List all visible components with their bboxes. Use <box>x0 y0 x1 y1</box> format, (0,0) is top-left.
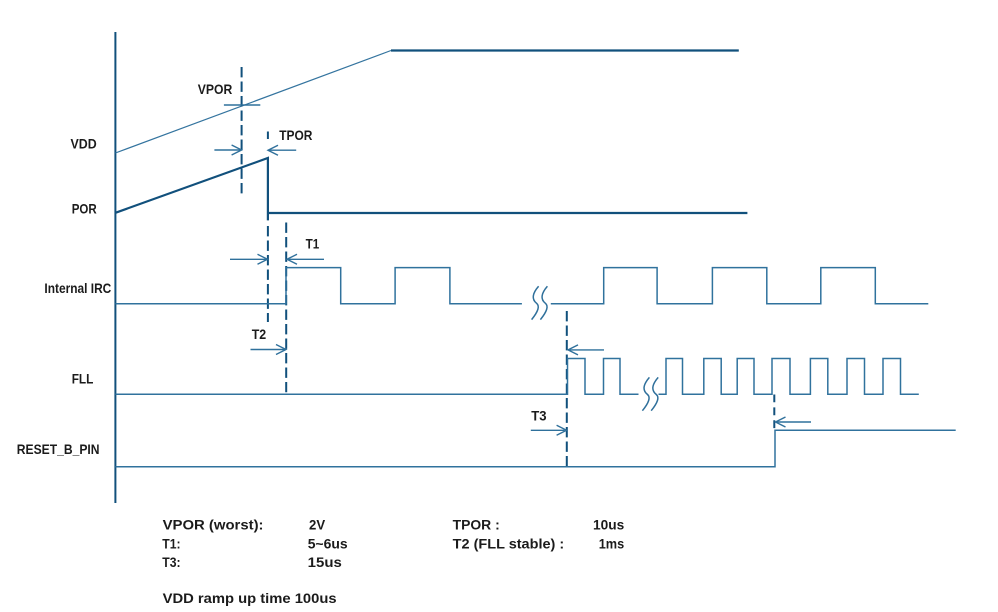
arrow T1 right <box>287 254 324 264</box>
wire FLL clock left <box>115 359 638 395</box>
svg-text:RESET_B_PIN: RESET_B_PIN <box>17 442 100 457</box>
wire FLL clock right <box>659 359 919 395</box>
svg-text:POR: POR <box>72 201 97 216</box>
node VPOR dashed line <box>241 67 243 194</box>
node T1 dashed line <box>285 223 287 393</box>
node IRC break squiggle <box>532 286 548 319</box>
svg-text:T3: T3 <box>531 408 547 423</box>
arrow VPOR <box>214 145 241 155</box>
svg-text:15us: 15us <box>308 555 342 571</box>
wire Internal IRC clock right <box>551 268 929 304</box>
svg-text:TPOR :: TPOR : <box>453 517 500 533</box>
wire VDD ramp <box>115 51 391 154</box>
node T3 dashed line <box>566 311 568 466</box>
arrow T3 <box>531 425 567 435</box>
wire POR flat <box>268 212 748 214</box>
wire RESET_B_PIN signal <box>115 430 955 466</box>
svg-text:T3:: T3: <box>162 555 180 571</box>
node FLL break squiggle <box>642 377 658 410</box>
arrow TPOR <box>268 145 296 155</box>
svg-text:2V: 2V <box>309 517 326 533</box>
arrow FLL stable <box>568 345 604 355</box>
svg-text:VPOR: VPOR <box>198 82 233 97</box>
svg-text:T2 (FLL stable) :: T2 (FLL stable) : <box>453 536 565 552</box>
svg-text:TPOR: TPOR <box>279 128 312 143</box>
node RESET dashed line <box>773 395 775 429</box>
node TPOR dashed line lower <box>267 226 269 322</box>
arrow T1 left <box>230 254 268 264</box>
svg-text:1ms: 1ms <box>599 536 625 552</box>
svg-text:Internal IRC: Internal IRC <box>44 281 111 296</box>
svg-text:10us: 10us <box>593 517 624 533</box>
wire Internal IRC clock left <box>115 268 522 304</box>
svg-text:VDD ramp up time 100us: VDD ramp up time 100us <box>163 591 337 607</box>
axis <box>114 32 116 503</box>
arrow RESET <box>776 417 812 427</box>
svg-text:T1: T1 <box>306 237 320 252</box>
svg-text:T1:: T1: <box>162 536 180 552</box>
node TPOR dash upper <box>267 132 269 140</box>
wire POR signal <box>115 158 268 220</box>
svg-text:T2: T2 <box>252 327 267 342</box>
svg-text:VPOR (worst):: VPOR (worst): <box>163 517 264 533</box>
svg-text:VDD: VDD <box>71 136 97 151</box>
node VPOR tick <box>224 104 260 106</box>
wire VDD flat <box>391 49 739 51</box>
arrow T2 <box>251 345 287 355</box>
svg-text:5~6us: 5~6us <box>308 536 348 552</box>
svg-text:FLL: FLL <box>72 372 94 387</box>
